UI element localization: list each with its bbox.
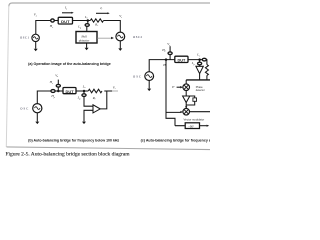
svg-text:Figure 2-5. Auto-balancing bri: Figure 2-5. Auto-balancing bridge sectio… <box>6 153 130 158</box>
svg-text:OSC1: OSC1 <box>20 36 30 40</box>
svg-text:detector: detector <box>196 88 205 92</box>
svg-text:OSC: OSC <box>20 107 28 111</box>
svg-text:(b) Auto-balancing bridge for: (b) Auto-balancing bridge for frequency … <box>28 138 119 142</box>
svg-text:DUT: DUT <box>61 20 69 24</box>
svg-text:DUT: DUT <box>66 90 74 94</box>
svg-text:OSC2: OSC2 <box>133 35 143 39</box>
svg-text:−90°: −90° <box>188 125 194 129</box>
svg-text:OSC: OSC <box>133 74 141 78</box>
svg-text:(c) Auto-balancing bridge for: (c) Auto-balancing bridge for frequency … <box>141 138 210 142</box>
svg-text:detector: detector <box>79 38 90 42</box>
svg-text:DUT: DUT <box>178 59 186 63</box>
svg-text:0°: 0° <box>172 85 175 89</box>
svg-text:(a) Operation image of the aut: (a) Operation image of the auto-balancin… <box>28 62 111 66</box>
svg-text:Vector modulator: Vector modulator <box>184 118 205 122</box>
